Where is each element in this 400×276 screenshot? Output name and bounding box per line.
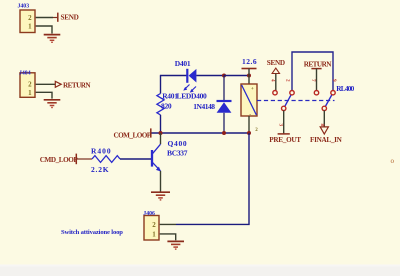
connector J403 [18,3,36,32]
contact terminal c3 [314,91,318,95]
svg-text:2.2K: 2.2K [91,165,109,174]
svg-text:1: 1 [28,89,32,97]
svg-text:RL400: RL400 [336,85,354,93]
relay linkage dashed line [257,100,335,102]
svg-text:PRE_OUT: PRE_OUT [269,136,301,144]
svg-text:2: 2 [285,79,291,82]
contact terminal c2 [290,91,294,95]
transistor Q400 [152,133,188,192]
contact terminal c4 [331,91,335,95]
svg-text:2: 2 [28,14,32,22]
wire R401 bottom to rail [160,115,162,133]
junction node [247,74,251,78]
wire D400 node to power node [224,75,249,77]
svg-text:12.6: 12.6 [242,57,257,66]
port FINAL_IN [310,127,343,144]
wire J403 pin 2 [36,17,53,19]
svg-text:1: 1 [152,230,156,238]
svg-text:1: 1 [28,22,32,30]
svg-text:D401: D401 [175,59,191,68]
resistor R401 [157,92,178,115]
wire coil bottom to J406 [176,133,249,224]
svg-text:Switch attivazione loop: Switch attivazione loop [61,229,123,236]
diode D400 [191,76,232,134]
LED D401 [175,59,197,101]
wire left vertical top [160,76,162,94]
svg-text:CMD_LOOP: CMD_LOOP [40,156,79,164]
svg-text:4: 4 [270,79,276,82]
svg-text:BC337: BC337 [167,149,188,158]
resistor R400 [91,146,120,174]
svg-text:SEND: SEND [267,59,285,67]
port SEND (relay) [267,59,285,91]
svg-text:8: 8 [319,124,325,127]
ground (J406) [167,241,184,249]
svg-text:9: 9 [331,79,337,82]
ground (J404) [44,100,61,108]
svg-text:SEND: SEND [61,14,79,22]
svg-text:R400: R400 [91,146,112,155]
contact armature left [284,93,293,109]
port PRE_OUT [269,134,301,144]
junction COM_LOOP [159,131,163,135]
port RETURN (relay) [304,61,332,91]
contact terminal c6 [322,106,326,110]
wire J406 pin 2 [160,223,176,225]
svg-text:COM_LOOP: COM_LOOP [114,131,152,139]
port SEND (J403) [53,13,79,22]
wire c6 to FINAL_IN [323,110,325,127]
svg-text:LED: LED [177,92,192,101]
svg-text:J403: J403 [18,3,30,9]
svg-text:D400: D400 [191,92,207,101]
svg-text:7: 7 [310,79,316,82]
port CMD_LOOP [40,154,92,165]
connector J406 [143,211,159,240]
svg-text:RETURN: RETURN [304,61,332,69]
ground (J403) [44,35,61,43]
junction D400 bottom [222,131,226,135]
port COM_LOOP [114,128,152,139]
svg-text:RETURN: RETURN [63,81,91,89]
wire pi-net over contacts [292,52,333,91]
wire c5 to PRE_OUT [283,110,285,133]
svg-text:3: 3 [278,124,284,127]
wire top horizontal to LED [160,75,187,77]
svg-text:2: 2 [152,221,156,229]
wire J403 pin 1 [36,26,52,34]
connector J404 [19,71,35,98]
svg-text:FINAL_IN: FINAL_IN [310,136,343,144]
bottom grey strip [0,265,400,276]
contact armature right [324,93,333,109]
wire J406 pin 1 [160,234,176,240]
svg-text:Q400: Q400 [168,139,188,148]
svg-text:2: 2 [28,81,32,89]
contact terminal c5 [282,106,286,110]
power 12.6 [242,57,258,75]
wire J404 pin 2 [36,83,55,85]
wire J404 pin 1 [36,92,52,98]
junction coil bottom [247,131,251,135]
ground (Q400 emitter) [151,192,170,200]
contact terminal c1 [273,91,277,95]
svg-text:820: 820 [161,101,172,110]
svg-text:J404: J404 [19,71,31,77]
bottom rail wire [152,132,250,134]
svg-text:1N4148: 1N4148 [193,102,215,111]
svg-text:+: + [251,86,254,92]
svg-text:o: o [391,157,395,165]
relay coil RL400 [241,76,258,134]
wire LED to D400 node [196,75,224,77]
wire R400 to base [120,158,151,160]
port RETURN (J404) [55,81,91,89]
svg-text:J406: J406 [143,211,155,217]
junction node [222,74,226,78]
